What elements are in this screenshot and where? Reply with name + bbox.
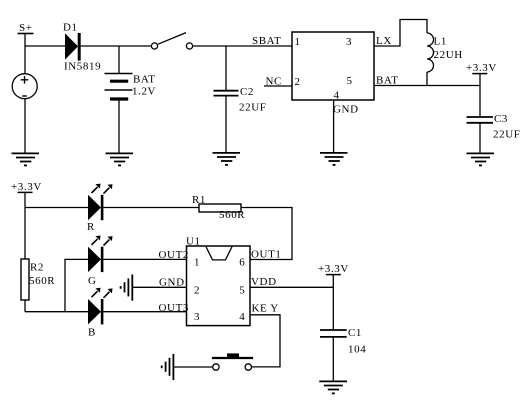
svg-text:R: R bbox=[87, 221, 95, 233]
svg-text:KE Y: KE Y bbox=[252, 303, 279, 315]
wire bbox=[173, 366, 212, 368]
svg-text:B: B bbox=[88, 327, 96, 339]
svg-text:3: 3 bbox=[346, 36, 352, 48]
wire bbox=[25, 311, 88, 313]
svg-text:SBAT: SBAT bbox=[252, 35, 281, 47]
wire OUT3 bbox=[103, 311, 186, 313]
svg-text:+3.3V: +3.3V bbox=[318, 263, 349, 275]
wire bbox=[118, 99, 120, 153]
wire bbox=[24, 192, 26, 259]
power +3.3V bbox=[466, 62, 497, 74]
svg-text:GND: GND bbox=[333, 104, 359, 116]
LED B bbox=[88, 288, 113, 339]
svg-text:2: 2 bbox=[194, 285, 200, 297]
inductor L1 bbox=[427, 33, 463, 72]
wire bbox=[24, 34, 26, 74]
svg-text:4: 4 bbox=[239, 311, 245, 323]
svg-text:OUT2: OUT2 bbox=[159, 249, 190, 261]
capacitor C2 bbox=[214, 86, 267, 114]
wire KEY bbox=[250, 315, 280, 367]
wire bbox=[332, 275, 334, 330]
pushbutton KEY bbox=[212, 353, 253, 370]
svg-text:C1: C1 bbox=[348, 327, 362, 339]
wire bbox=[426, 72, 428, 86]
wire bbox=[24, 300, 26, 312]
svg-text:D1: D1 bbox=[63, 22, 78, 34]
svg-text:U1: U1 bbox=[186, 236, 201, 248]
svg-text:22UH: 22UH bbox=[434, 49, 463, 61]
power +3.3V (bottom left) bbox=[11, 181, 42, 193]
svg-text:LX: LX bbox=[376, 35, 392, 47]
wire bbox=[225, 46, 227, 91]
wire bbox=[479, 74, 481, 117]
svg-text:BAT: BAT bbox=[376, 75, 399, 87]
svg-text:GND: GND bbox=[159, 277, 185, 289]
wire bbox=[24, 99, 26, 153]
wire bbox=[25, 45, 65, 47]
diode D1 bbox=[63, 22, 101, 73]
svg-text:560R: 560R bbox=[29, 275, 55, 287]
battery BAT 1.2V bbox=[105, 74, 157, 100]
wire LX bbox=[374, 20, 427, 47]
terminal S+ bbox=[18, 22, 34, 34]
svg-text:2: 2 bbox=[295, 76, 301, 88]
capacitor C1 bbox=[320, 327, 366, 356]
wire bbox=[479, 123, 481, 153]
wire bbox=[103, 207, 199, 209]
LED G bbox=[88, 236, 113, 288]
voltage source bbox=[12, 74, 37, 99]
ground bbox=[320, 153, 348, 165]
ground (rotated, GND pin) bbox=[121, 275, 133, 301]
svg-text:R2: R2 bbox=[30, 262, 44, 274]
wire bbox=[193, 45, 292, 47]
ground bbox=[213, 153, 241, 165]
wire GND pin 4 bbox=[333, 100, 335, 153]
svg-text:22UF: 22UF bbox=[493, 129, 520, 141]
wire bbox=[81, 45, 152, 47]
LED R bbox=[87, 184, 113, 233]
svg-text:C2: C2 bbox=[240, 86, 254, 98]
svg-text:1.2V: 1.2V bbox=[132, 86, 156, 98]
svg-text:22UF: 22UF bbox=[239, 102, 266, 114]
power +3.3V (bottom mid) bbox=[318, 263, 349, 275]
capacitor C3 bbox=[467, 113, 521, 141]
wire GND bbox=[132, 286, 186, 288]
wire bbox=[25, 207, 88, 209]
wire bbox=[118, 46, 120, 74]
ground (rotated, button) bbox=[162, 354, 174, 380]
svg-text:5: 5 bbox=[347, 75, 353, 87]
svg-text:560R: 560R bbox=[219, 209, 245, 221]
ground bbox=[319, 381, 347, 393]
svg-text:OUT3: OUT3 bbox=[159, 302, 190, 314]
ground bbox=[12, 153, 40, 165]
svg-text:G: G bbox=[88, 275, 97, 287]
svg-text:L1: L1 bbox=[434, 36, 447, 48]
svg-text:5: 5 bbox=[239, 285, 245, 297]
svg-text:4: 4 bbox=[334, 90, 340, 102]
resistor R1 bbox=[192, 194, 245, 221]
svg-text:C3: C3 bbox=[494, 113, 508, 125]
IC regulator bbox=[292, 32, 374, 102]
svg-text:1: 1 bbox=[295, 36, 301, 48]
svg-text:IN5819: IN5819 bbox=[64, 61, 101, 73]
svg-text:NC: NC bbox=[266, 76, 282, 88]
wire bbox=[225, 96, 227, 153]
pin 2 NC stub bbox=[264, 76, 292, 88]
wire bbox=[241, 208, 292, 260]
switch S1 bbox=[151, 33, 192, 50]
svg-text:1: 1 bbox=[194, 257, 200, 269]
svg-text:R1: R1 bbox=[192, 194, 206, 206]
svg-text:BAT: BAT bbox=[133, 74, 156, 86]
svg-text:+3.3V: +3.3V bbox=[11, 181, 42, 193]
svg-text:OUT1: OUT1 bbox=[251, 249, 282, 261]
svg-text:6: 6 bbox=[239, 257, 245, 269]
svg-text:S+: S+ bbox=[19, 22, 33, 34]
wire VDD bbox=[250, 286, 333, 288]
wire bbox=[332, 337, 334, 382]
svg-text:104: 104 bbox=[348, 344, 366, 356]
ground bbox=[467, 153, 495, 165]
svg-text:+3.3V: +3.3V bbox=[466, 62, 497, 74]
ground bbox=[106, 153, 134, 165]
IC U1 bbox=[186, 236, 250, 326]
resistor R2 bbox=[21, 259, 55, 300]
svg-text:VDD: VDD bbox=[251, 276, 277, 288]
wire OUT2 bbox=[103, 258, 186, 260]
wire BAT net bbox=[374, 85, 480, 87]
wire bbox=[65, 259, 88, 311]
svg-text:3: 3 bbox=[194, 311, 200, 323]
